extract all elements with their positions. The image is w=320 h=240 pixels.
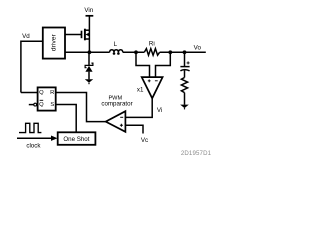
transistor Q1 source stub [85,29,90,31]
svg-text:Vi: Vi [157,107,162,114]
wire driver to switch node [65,51,90,53]
svg-text:x1: x1 [137,87,144,94]
svg-text:Ri: Ri [149,41,155,48]
comparator minus input mark [120,116,123,118]
svg-text:Q: Q [39,90,44,96]
flip-flop U2 box [38,87,56,110]
resistor Ri zigzag [144,49,159,56]
capacitor C1 wire from Vo [184,52,186,66]
op-amp PWM comparator triangle [106,111,126,132]
wire Ri left tap to x1 [136,52,150,77]
diode D1 wire from switch node [88,52,90,65]
wire Q output to Vd [21,92,38,94]
wire Vd input to driver [21,41,43,92]
transistor Q1 gate bar [81,31,83,39]
svg-text:clock: clock [26,142,41,149]
op-amp x1 plus input mark [148,79,151,82]
clock waveform glyph [19,123,41,132]
wire diode to ground [88,72,90,80]
svg-text:L: L [114,41,118,48]
wire flip-flop S input from one-shot [56,105,76,133]
node Ri right junction dot [168,50,172,54]
node Ri left junction dot [134,50,138,54]
op-amp x1 minus input mark [155,80,158,82]
wire clock arrow into one-shot [17,137,52,139]
svg-text:comparator: comparator [101,101,132,108]
node switch junction dot [88,50,92,54]
transistor Q1 body arrow [85,33,89,37]
node output cap junction dot [183,50,187,54]
svg-text:Vin: Vin [84,7,93,14]
capacitor C1 bottom plate [180,70,189,71]
svg-text:Vc: Vc [141,137,148,144]
wire x1 output to comparator minus input [125,98,152,117]
svg-text:2D1957D1: 2D1957D1 [181,150,212,157]
capacitor C1 top plate [180,66,189,68]
svg-text:R: R [50,90,54,96]
svg-text:Vo: Vo [194,44,202,51]
svg-text:Vd: Vd [22,33,30,40]
resistor ESR zigzag [181,78,187,93]
svg-text:driver: driver [51,33,58,51]
wire Vc stub to comparator plus input [125,125,143,133]
wire cap to resistor [184,70,186,77]
wire Vin rail down to switch node [88,16,90,53]
inductor L coil [110,50,123,53]
comparator plus input mark [120,124,123,127]
flip-flop Q-bar stub [29,104,34,106]
diode D1 anode triangle [85,66,92,72]
svg-text:One Shot: One Shot [63,136,89,143]
transistor Q1 channel bar [84,29,86,41]
driver U1 box [43,28,65,59]
svg-text:S: S [50,102,54,108]
op-amp x1 sense amplifier triangle [142,77,163,98]
wire switch node to inductor [89,51,109,53]
Vin supply bar [86,15,94,17]
transistor Q1 drain stub [85,38,90,40]
wire inductor to Ri [123,51,145,53]
wire Ri right tap to x1 [156,52,171,77]
flip-flop Q-bar bubble [34,103,37,106]
wire driver to gate [65,34,82,36]
wire comparator output to flip-flop R input [56,93,106,122]
ground arrow under diode [85,79,93,83]
one-shot U3 box [58,132,96,145]
diode D1 schottky cathode bar [85,63,93,68]
wire resistor to ground [184,93,186,105]
ground arrow under resistor [180,105,189,109]
svg-text:Q: Q [39,102,44,108]
wire Ri to Vo [160,51,206,53]
capacitor C1 plus sign [187,61,190,64]
